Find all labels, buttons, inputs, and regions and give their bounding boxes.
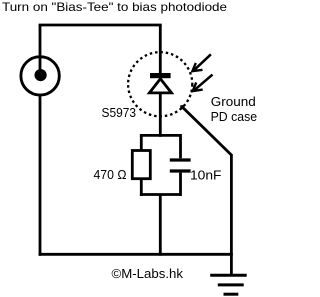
wire: left vertical from connector shield to bottom rail — [39, 96, 42, 256]
wire: capacitor bottom lead — [179, 173, 182, 196]
wire: resistor bottom lead — [140, 180, 143, 196]
wire: RC bottom rail — [140, 193, 181, 196]
connector J1: center pin dot — [35, 69, 47, 81]
wire: top-left vertical from connector to top rail — [39, 25, 42, 75]
svg-text:Ground: Ground — [211, 94, 256, 109]
wire: top horizontal rail — [39, 24, 162, 27]
ground symbol: bar 2 — [218, 283, 244, 286]
wire: diagonal from PD case to ground line — [182, 106, 232, 155]
svg-text:470 Ω: 470 Ω — [94, 167, 127, 182]
wire: right vertical down to ground — [230, 154, 233, 276]
capacitor C1: top plate — [170, 158, 191, 161]
svg-text:Turn on "Bias-Tee" to bias pho: Turn on "Bias-Tee" to bias photodiode — [2, 0, 227, 14]
capacitor C1: bottom plate — [170, 169, 191, 172]
photodiode D1: case (dotted circle) — [128, 52, 192, 116]
wire: diagonal start nub at PD case — [180, 105, 184, 108]
wire: RC bottom node down to bottom rail — [159, 195, 162, 256]
ground symbol: bar 1 — [210, 274, 247, 277]
light arrow 1 — [192, 54, 211, 71]
light arrow 2 — [193, 75, 213, 92]
resistor R1: body — [132, 151, 150, 179]
photodiode D1: anode triangle — [149, 79, 171, 93]
svg-text:PD case: PD case — [211, 109, 258, 124]
svg-text:©M-Labs.hk: ©M-Labs.hk — [112, 266, 184, 281]
label: Ground PD case — [211, 94, 258, 124]
svg-text:S5973: S5973 — [102, 105, 137, 120]
wire: top-right vertical from top rail to photodiode cathode — [159, 25, 162, 75]
wire: bottom horizontal rail — [39, 253, 233, 256]
wire: RC top rail — [140, 134, 181, 137]
svg-text:10nF: 10nF — [190, 167, 222, 182]
wire: capacitor top lead — [179, 134, 182, 158]
ground symbol: bar 3 — [224, 293, 239, 296]
wire: photodiode anode down to RC top node — [159, 93, 162, 137]
connector J1: coax input (outer ring) — [21, 57, 59, 95]
photodiode D1: cathode bar — [150, 73, 171, 78]
wire: resistor top lead — [140, 134, 143, 150]
